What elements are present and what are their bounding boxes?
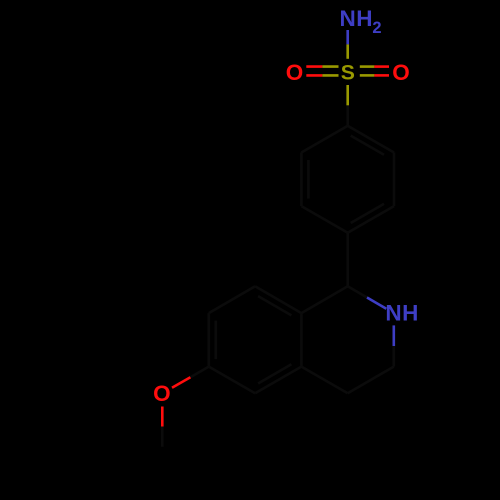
bond C6-C7: [208, 313, 211, 367]
svg-text:O: O: [392, 60, 410, 85]
bond O-CH3 (methoxy methyl): [161, 407, 164, 427]
svg-text:H: H: [356, 6, 372, 31]
svg-text:N: N: [339, 6, 355, 31]
svg-text:2: 2: [372, 19, 381, 37]
bond phenyl T-UR: [348, 126, 394, 153]
bond C4-C4a: [301, 367, 347, 394]
bond S=O right: [360, 67, 389, 76]
svg-text:H: H: [402, 301, 418, 326]
svg-text:O: O: [286, 60, 304, 85]
bond C1-N2: [348, 286, 367, 297]
svg-text:S: S: [341, 61, 355, 84]
bond C4a-C5: [255, 367, 301, 394]
svg-text:O: O: [153, 381, 171, 406]
bond phenyl-C1: [346, 233, 349, 286]
svg-text:N: N: [385, 301, 401, 326]
bond phenyl UL-T: [301, 126, 347, 153]
bond S-C(phenyl): [346, 85, 349, 105]
bond C4a-C8a (ring fusion): [300, 313, 303, 367]
bond phenyl LL-UL: [300, 153, 303, 207]
bond N2-C3: [392, 325, 395, 346]
bond N-S (sulfonamide): [346, 30, 349, 44]
bond C8a-C1: [301, 286, 347, 313]
phenyl aromatic inner lines: [308, 136, 384, 223]
benzo aromatic inner lines: [216, 296, 292, 383]
bond S=O left: [306, 67, 338, 76]
bond phenyl LR-B: [348, 206, 394, 233]
bond C5-C6: [209, 367, 255, 394]
bond C8-C8a: [255, 286, 301, 313]
bond C7-C8: [209, 286, 255, 313]
bond C6-O (methoxy): [190, 367, 208, 378]
bond phenyl UR-LR: [393, 153, 396, 207]
bond C3-C4: [348, 367, 394, 394]
bond phenyl B-LL: [301, 206, 347, 233]
